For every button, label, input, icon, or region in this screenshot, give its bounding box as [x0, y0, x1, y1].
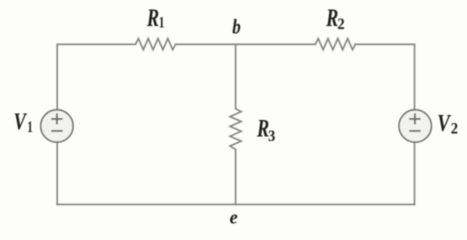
voltage source V1 [41, 110, 73, 142]
label V2 [437, 111, 458, 138]
resistor R1 [136, 39, 176, 50]
voltage source V2 [399, 110, 431, 142]
resistor R3 [230, 109, 241, 150]
resistor R2 [315, 39, 355, 50]
svg-text:3: 3 [268, 126, 275, 145]
label V1 [14, 109, 33, 136]
svg-text:R: R [325, 4, 338, 32]
wire left vertical [56, 44, 58, 204]
svg-text:1: 1 [27, 119, 33, 136]
node b label [232, 15, 241, 39]
svg-text:V: V [14, 109, 28, 135]
wire top-middle horizontal [176, 43, 316, 45]
svg-text:1: 1 [159, 14, 165, 31]
svg-text:b: b [232, 15, 241, 39]
node e label [230, 208, 238, 229]
svg-text:e: e [230, 208, 238, 229]
label R3 [256, 115, 275, 146]
wire bottom horizontal [57, 203, 414, 205]
label R2 [325, 4, 344, 33]
label R1 [146, 4, 164, 32]
svg-text:2: 2 [337, 14, 344, 33]
svg-text:V: V [437, 111, 451, 137]
wire top-right horizontal [355, 43, 414, 45]
wire top-left horizontal [57, 43, 135, 45]
svg-text:2: 2 [451, 119, 458, 138]
wire middle vertical upper (node b to R3) [235, 44, 237, 108]
svg-text:R: R [146, 4, 159, 32]
wire middle vertical lower (R3 to node e) [235, 149, 237, 204]
wire right vertical [414, 44, 416, 204]
